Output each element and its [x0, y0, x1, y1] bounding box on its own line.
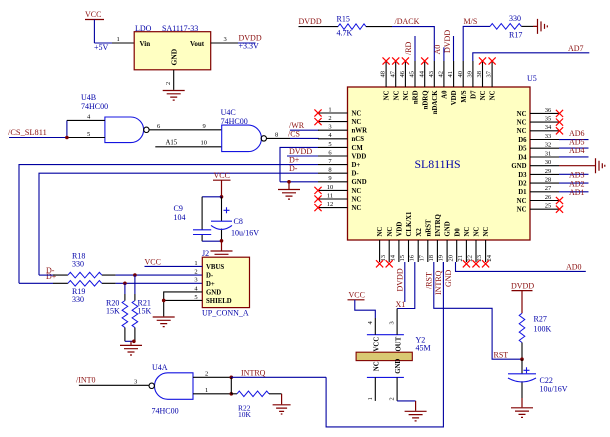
svg-text:U5: U5 — [527, 74, 537, 83]
resistor R18 330 (D- line) — [39, 252, 116, 278]
svg-text:SHIELD: SHIELD — [206, 298, 232, 305]
wire U5 pin30 GND — [559, 165, 596, 167]
U5 pin 15 VDD — [397, 222, 407, 262]
svg-text:29: 29 — [545, 168, 552, 175]
svg-text:3: 3 — [134, 379, 137, 386]
U5 pin 37 NC — [486, 57, 497, 100]
svg-text:NC: NC — [393, 90, 400, 100]
U5 pin 2 NC — [314, 115, 361, 126]
wire INTRQ to bottom run — [231, 368, 326, 377]
svg-text:17: 17 — [418, 254, 425, 261]
svg-text:104: 104 — [174, 213, 186, 222]
U5 pin 19 INTRQ — [435, 214, 445, 262]
svg-text:11: 11 — [327, 192, 333, 199]
wire tying pins 1-2 — [230, 377, 232, 394]
svg-text:AD3: AD3 — [569, 171, 585, 180]
wire R20/R21 commons to ground — [125, 340, 136, 345]
svg-text:nDACK: nDACK — [432, 90, 439, 115]
svg-text:42: 42 — [438, 71, 445, 78]
svg-text:2: 2 — [194, 269, 197, 276]
ground (Y2 / U5) — [405, 401, 427, 421]
svg-text:nRD: nRD — [413, 90, 420, 104]
svg-text:NC: NC — [374, 361, 381, 371]
node A15 input wire — [155, 139, 221, 147]
U5 pin 23 NC — [472, 227, 483, 268]
U5 pin 38 NC — [476, 57, 487, 100]
svg-text:3: 3 — [224, 36, 227, 43]
resistor R20 15K — [106, 283, 128, 341]
svg-text:5: 5 — [194, 294, 197, 301]
svg-text:A15: A15 — [166, 139, 178, 146]
U5 pin 4 nCS — [318, 132, 364, 143]
wire D+ bus (U5 pin7 to R19) — [19, 156, 318, 284]
svg-text:4.7K: 4.7K — [337, 29, 353, 38]
svg-text:2: 2 — [165, 82, 172, 85]
svg-text:NC: NC — [517, 111, 527, 118]
svg-text:VDD: VDD — [397, 222, 404, 237]
resistor R17 330 — [490, 14, 533, 40]
wire M/S (U5 pin40) to R17 — [463, 17, 490, 61]
svg-text:/WR: /WR — [289, 121, 305, 130]
net label /CS_SL811 and input wire — [8, 114, 105, 140]
svg-text:15K: 15K — [138, 307, 152, 316]
U5 pin 31 D4 — [518, 150, 559, 161]
net label /INT0 and output wire — [76, 375, 149, 385]
svg-text:NC: NC — [483, 227, 490, 237]
svg-text:INTRQ: INTRQ — [241, 368, 266, 377]
svg-text:41: 41 — [447, 71, 454, 78]
svg-text:M/S: M/S — [464, 17, 478, 26]
svg-text:OUT: OUT — [395, 336, 402, 351]
svg-text:9: 9 — [203, 123, 206, 130]
wire U4A pin1 input — [193, 387, 233, 396]
svg-text:1: 1 — [367, 397, 374, 400]
svg-text:1: 1 — [205, 387, 208, 394]
svg-text:NC: NC — [352, 205, 362, 212]
net label VCC (J2 VBUS) — [145, 257, 203, 266]
capacitor C9 104 — [174, 197, 222, 241]
svg-text:D+: D+ — [206, 281, 215, 288]
ground (U5 GND pin9) — [278, 190, 300, 200]
svg-text:45M: 45M — [416, 344, 431, 353]
wire AD7 (U5 pin39 D7) — [473, 44, 590, 61]
svg-text:CM: CM — [352, 145, 364, 152]
svg-text:/CS: /CS — [288, 130, 300, 139]
ground (LDO GND) — [163, 91, 185, 101]
U5 pin 36 NC — [517, 107, 563, 118]
svg-text:43: 43 — [428, 71, 435, 78]
U5 pin 47 NC — [389, 57, 400, 100]
J2 pin 2 D- — [194, 269, 214, 280]
U5 pin 6 VDD — [318, 149, 366, 160]
U5 pin 34 NC — [517, 124, 563, 135]
resistor R19 330 (D+ line) — [19, 281, 116, 305]
svg-text:VCC: VCC — [85, 10, 101, 19]
svg-text:GND: GND — [206, 290, 221, 297]
U5 pin 3 nWR — [318, 124, 367, 135]
U5 pin 24 NC — [482, 227, 493, 268]
wire /DACK to U5 pin43 — [392, 17, 434, 61]
wire AD2 (U5 pin 28) — [559, 179, 589, 188]
wire U4A pin2 input — [193, 371, 233, 380]
svg-text:C8: C8 — [234, 217, 243, 226]
svg-text:U4A: U4A — [152, 363, 168, 372]
gate U4B 74HC00 — [81, 93, 149, 143]
svg-text:15: 15 — [399, 255, 406, 262]
svg-text:330: 330 — [72, 260, 84, 269]
resistor R21 15K — [132, 275, 151, 341]
U5 pin 20 GND — [445, 221, 455, 262]
svg-text:35: 35 — [545, 116, 552, 123]
U5 pin 48 NC — [380, 57, 391, 100]
svg-text:19: 19 — [438, 255, 445, 262]
svg-text:LDO: LDO — [135, 24, 152, 33]
svg-text:20: 20 — [447, 255, 454, 262]
svg-text:VCC: VCC — [349, 291, 365, 300]
svg-text:44: 44 — [418, 70, 425, 77]
wire CM pin5 tied to GND — [280, 147, 318, 181]
svg-text:39: 39 — [467, 71, 474, 78]
connector J2 UP_CONN_A body — [202, 249, 250, 318]
svg-text:NC: NC — [352, 188, 362, 195]
svg-text:INTRQ: INTRQ — [435, 214, 442, 236]
power DVDD (reset pullup) — [511, 281, 534, 313]
svg-text:NC: NC — [517, 207, 527, 214]
svg-text:D-: D- — [206, 273, 214, 280]
U5 pin 33 D6 — [518, 133, 559, 144]
svg-text:/RST: /RST — [424, 272, 433, 289]
svg-text:36: 36 — [545, 107, 552, 114]
svg-text:VDD: VDD — [352, 153, 367, 160]
ground (C22) — [511, 398, 533, 417]
svg-text:/CS_SL811: /CS_SL811 — [8, 128, 47, 137]
svg-text:3: 3 — [328, 124, 331, 131]
U5 pin 27 D1 — [518, 185, 559, 196]
svg-text:16: 16 — [409, 254, 416, 261]
svg-text:NC: NC — [403, 90, 410, 100]
wire /RST (U5 pin18 to RST node) — [424, 262, 521, 359]
svg-text:47: 47 — [389, 70, 396, 77]
svg-text:8: 8 — [275, 132, 278, 139]
wire R19 to J2 pin3 — [116, 282, 203, 284]
svg-text:10u/16V: 10u/16V — [540, 385, 568, 394]
svg-text:NC: NC — [517, 198, 527, 205]
svg-text:SA1117-33: SA1117-33 — [162, 24, 198, 33]
svg-text:12: 12 — [327, 201, 334, 208]
J2 pin 1 VBUS — [194, 260, 224, 271]
svg-text:NC: NC — [480, 90, 487, 100]
wire AD6 (U5 pin 33) — [559, 129, 589, 140]
svg-text:31: 31 — [545, 150, 552, 157]
power VCC (oscillator) — [348, 291, 376, 318]
svg-text:AD6: AD6 — [569, 129, 585, 138]
svg-text:R17: R17 — [509, 31, 522, 40]
U5 pin 12 NC — [314, 201, 361, 212]
wire U4C out pin8 to U5 nCS — [267, 132, 319, 139]
svg-text:GND: GND — [352, 179, 367, 186]
svg-text:nDRQ: nDRQ — [422, 91, 429, 110]
wire AD1 (U5 pin 27) — [559, 188, 589, 197]
svg-text:3: 3 — [389, 321, 396, 324]
U5 pin 11 NC — [314, 192, 361, 203]
node RST junction — [520, 357, 524, 361]
svg-text:GND: GND — [444, 269, 453, 287]
wire U4B out pin6 to U4C pin9 — [149, 123, 222, 130]
svg-text:D6: D6 — [518, 137, 527, 144]
svg-text:Vin: Vin — [140, 40, 151, 48]
U5 pin 42 A0 — [438, 61, 449, 99]
svg-text:NC: NC — [490, 90, 497, 100]
svg-text:3: 3 — [194, 277, 197, 284]
U5 pin 14 NC — [386, 227, 397, 268]
capacitor C22 10u/16V (electrolytic) — [508, 359, 568, 398]
U5 pin 41 VDD — [447, 61, 458, 105]
net INTRQ stub (U5 pin19) — [434, 262, 443, 295]
svg-text:AD2: AD2 — [569, 179, 585, 188]
svg-text:DVDD: DVDD — [443, 30, 452, 53]
svg-text:AD0: AD0 — [566, 262, 582, 271]
svg-text:nWR: nWR — [352, 128, 368, 135]
U5 pin 26 NC — [517, 194, 563, 205]
power VCC (decoupling caps) — [213, 171, 231, 197]
svg-text:AD4: AD4 — [569, 146, 585, 155]
svg-text:AD1: AD1 — [569, 188, 585, 197]
resistor R22 10K — [231, 391, 281, 419]
svg-text:UP_CONN_A: UP_CONN_A — [202, 309, 249, 318]
svg-text:9: 9 — [328, 175, 331, 182]
svg-text:GND: GND — [170, 48, 179, 65]
wire AD0 (U5 pin21 D0) — [456, 262, 586, 271]
U5 pin 44 nDRQ — [418, 57, 429, 109]
svg-text:R15: R15 — [337, 15, 350, 24]
svg-text:2: 2 — [328, 115, 331, 122]
U5 pin 30 GND — [511, 159, 559, 170]
svg-text:34: 34 — [545, 124, 552, 131]
node junction VCC/C9/C8 — [220, 195, 224, 199]
svg-text:/RD: /RD — [404, 41, 413, 55]
svg-text:28: 28 — [545, 177, 552, 184]
svg-text:10: 10 — [327, 184, 334, 191]
svg-text:A0: A0 — [433, 45, 442, 55]
svg-text:AD5: AD5 — [569, 138, 585, 147]
svg-text:D+: D+ — [352, 162, 361, 169]
svg-text:NC: NC — [517, 120, 527, 127]
U5 pin 39 D7 — [467, 61, 478, 99]
svg-text:D7: D7 — [471, 90, 478, 99]
svg-text:15K: 15K — [106, 307, 120, 316]
svg-text:D-: D- — [352, 171, 360, 178]
net DVDD stub (U5 pin41) — [443, 30, 454, 61]
wire R18 to J2 pin2 — [116, 274, 203, 276]
node junction D+ / R20 — [123, 282, 127, 286]
svg-text:30: 30 — [545, 159, 552, 166]
svg-text:RST: RST — [494, 350, 509, 359]
wire D- bus (U5 pin8 to R18) — [39, 164, 318, 275]
svg-text:1: 1 — [328, 106, 331, 113]
U5 pin 22 NC — [463, 227, 474, 268]
U5 pin 21 D0 — [454, 228, 464, 262]
svg-text:SL811HS: SL811HS — [415, 157, 461, 171]
U5 pin 18 nRST — [425, 219, 435, 262]
svg-text:INTRQ: INTRQ — [434, 270, 443, 295]
gate U4A 74HC00 (mirrored) — [149, 363, 193, 416]
svg-text:D1: D1 — [518, 189, 527, 196]
resistor R15 4.7K — [299, 15, 393, 38]
svg-text:NC: NC — [352, 119, 362, 126]
capacitor C8 10u/16V (electrolytic) — [211, 197, 259, 241]
wire J2 pin5 SHIELD — [162, 299, 202, 303]
net A0 stub (U5 pin42) — [433, 45, 444, 61]
ground (U5 pin30, rotated) — [596, 158, 605, 173]
svg-text:GND: GND — [395, 359, 402, 374]
U5 pin 45 nRD — [409, 61, 420, 104]
J2 pin 5 SHIELD — [194, 294, 231, 305]
svg-text:X2: X2 — [416, 228, 423, 237]
wire X1 (U5 pin16 to Y2 OUT) — [396, 262, 415, 309]
U5 pin 46 NC — [399, 57, 410, 100]
svg-text:+5V: +5V — [94, 43, 109, 52]
svg-text:D5: D5 — [518, 146, 527, 153]
Y2 pin 4 VCC — [367, 318, 381, 352]
svg-text:74HC00: 74HC00 — [81, 102, 108, 111]
svg-text:VDD: VDD — [451, 90, 458, 105]
U5 pin 32 D5 — [518, 142, 559, 153]
svg-text:18: 18 — [428, 255, 435, 262]
net DVDD stub (U5 pin15 VDD) — [395, 262, 404, 302]
U5 pin 5 CM — [318, 141, 363, 152]
svg-text:U4C: U4C — [221, 108, 236, 117]
U5 pin 43 nDACK — [428, 61, 439, 114]
svg-text:VBUS: VBUS — [206, 264, 224, 271]
wire J2 pin4 GND — [164, 292, 203, 317]
J2 pin 4 GND — [194, 285, 221, 296]
svg-text:D3: D3 — [518, 172, 527, 179]
U5 pin 1 NC — [314, 106, 361, 117]
svg-text:1: 1 — [117, 36, 120, 43]
svg-text:C9: C9 — [174, 204, 183, 213]
svg-text:/INT0: /INT0 — [76, 375, 96, 384]
svg-text:D+: D+ — [46, 272, 57, 281]
svg-text:45: 45 — [409, 71, 416, 78]
Y2 pin 1 NC — [367, 361, 381, 401]
svg-text:25: 25 — [545, 203, 552, 210]
svg-text:U4B: U4B — [81, 93, 96, 102]
regulator U? LDO SA1117-33 — [134, 24, 211, 70]
resistor R27 100K — [519, 313, 551, 359]
svg-text:Vout: Vout — [190, 40, 205, 48]
svg-text:NC: NC — [387, 227, 394, 237]
svg-text:37: 37 — [486, 70, 493, 77]
svg-text:nCS: nCS — [352, 136, 365, 143]
wire AD5 (U5 pin 32) — [559, 138, 589, 149]
ground (R17, rotated) — [533, 19, 547, 34]
svg-text:nRST: nRST — [425, 219, 432, 236]
net /RD stub (U5 pin45) — [404, 36, 415, 61]
U5 pin 40 M/S — [457, 61, 468, 103]
U5 pin 16 CLK/X1 — [406, 211, 416, 262]
svg-text:M/S: M/S — [461, 90, 468, 102]
svg-text:32: 32 — [545, 142, 552, 149]
svg-text:DVDD: DVDD — [395, 268, 404, 291]
svg-text:NC: NC — [352, 110, 362, 117]
J2 pin 3 D+ — [194, 277, 215, 288]
svg-text:J2: J2 — [202, 249, 209, 258]
svg-text:D2: D2 — [518, 181, 527, 188]
svg-text:DVDD: DVDD — [299, 17, 322, 26]
U5 pin 7 D+ — [318, 158, 360, 169]
oscillator Y2 45M body — [356, 335, 431, 378]
wire +5V to LDO Vin — [94, 43, 134, 52]
svg-text:D0: D0 — [454, 228, 461, 237]
net label DVDD (U5 VDD pin6) — [287, 147, 318, 156]
svg-text:NC: NC — [464, 227, 471, 237]
ground (R22) — [273, 394, 291, 414]
ground (R20/R21) — [120, 345, 142, 355]
svg-text:CLK/X1: CLK/X1 — [406, 211, 413, 237]
svg-text:NC: NC — [384, 90, 391, 100]
svg-text:VCC: VCC — [145, 257, 161, 266]
svg-text:26: 26 — [545, 194, 552, 201]
svg-text:2: 2 — [205, 371, 208, 378]
U5 pin 13 NC — [376, 227, 387, 268]
svg-text:DVDD: DVDD — [511, 281, 534, 290]
svg-text:1: 1 — [194, 260, 197, 267]
svg-text:R27: R27 — [534, 315, 547, 324]
Y2 pin 2 GND — [389, 359, 416, 401]
node junction D- / R21 — [133, 273, 137, 277]
U5 pin 29 D3 — [518, 168, 559, 179]
svg-text:330: 330 — [72, 295, 84, 304]
U5 pin 10 NC — [314, 184, 361, 195]
IC U5 SL811HS body — [348, 74, 537, 240]
svg-text:10: 10 — [201, 140, 208, 147]
svg-text:40: 40 — [457, 71, 464, 78]
svg-text:5: 5 — [328, 141, 331, 148]
svg-text:10K: 10K — [238, 410, 252, 419]
svg-text:100K: 100K — [534, 325, 552, 334]
svg-text:NC: NC — [517, 128, 527, 135]
ground (J2 shell) — [153, 317, 175, 327]
svg-text:33: 33 — [545, 133, 552, 140]
U5 pin 25 NC — [517, 203, 563, 214]
svg-text:GND: GND — [445, 221, 452, 236]
LDO pin 2 wire — [165, 70, 174, 90]
svg-text:48: 48 — [380, 71, 387, 78]
svg-text:27: 27 — [545, 185, 552, 192]
net label /WR and wire to U5 pin3 — [289, 121, 319, 130]
svg-text:330: 330 — [509, 14, 521, 23]
svg-text:/DACK: /DACK — [395, 17, 420, 26]
svg-text:+3.3V: +3.3V — [239, 42, 260, 51]
svg-text:NC: NC — [352, 196, 362, 203]
U5 pin 9 GND — [318, 175, 367, 186]
svg-text:2: 2 — [389, 397, 396, 400]
U5 pin 8 D- — [318, 167, 359, 178]
svg-text:A0: A0 — [442, 90, 449, 99]
svg-text:38: 38 — [476, 71, 483, 78]
svg-text:VCC: VCC — [374, 337, 381, 352]
Y2 pin 3 OUT — [389, 309, 403, 352]
gate U4C 74HC00 — [221, 108, 267, 152]
svg-text:VCC: VCC — [214, 171, 230, 180]
U5 pin 28 D2 — [518, 177, 559, 188]
svg-text:NC: NC — [474, 227, 481, 237]
svg-text:GND: GND — [511, 163, 526, 170]
wire LDO Vout pin 3 to DVDD — [211, 34, 262, 51]
svg-text:D-: D- — [289, 164, 298, 173]
svg-text:X1: X1 — [396, 300, 406, 309]
U5 pin 35 NC — [517, 116, 563, 127]
